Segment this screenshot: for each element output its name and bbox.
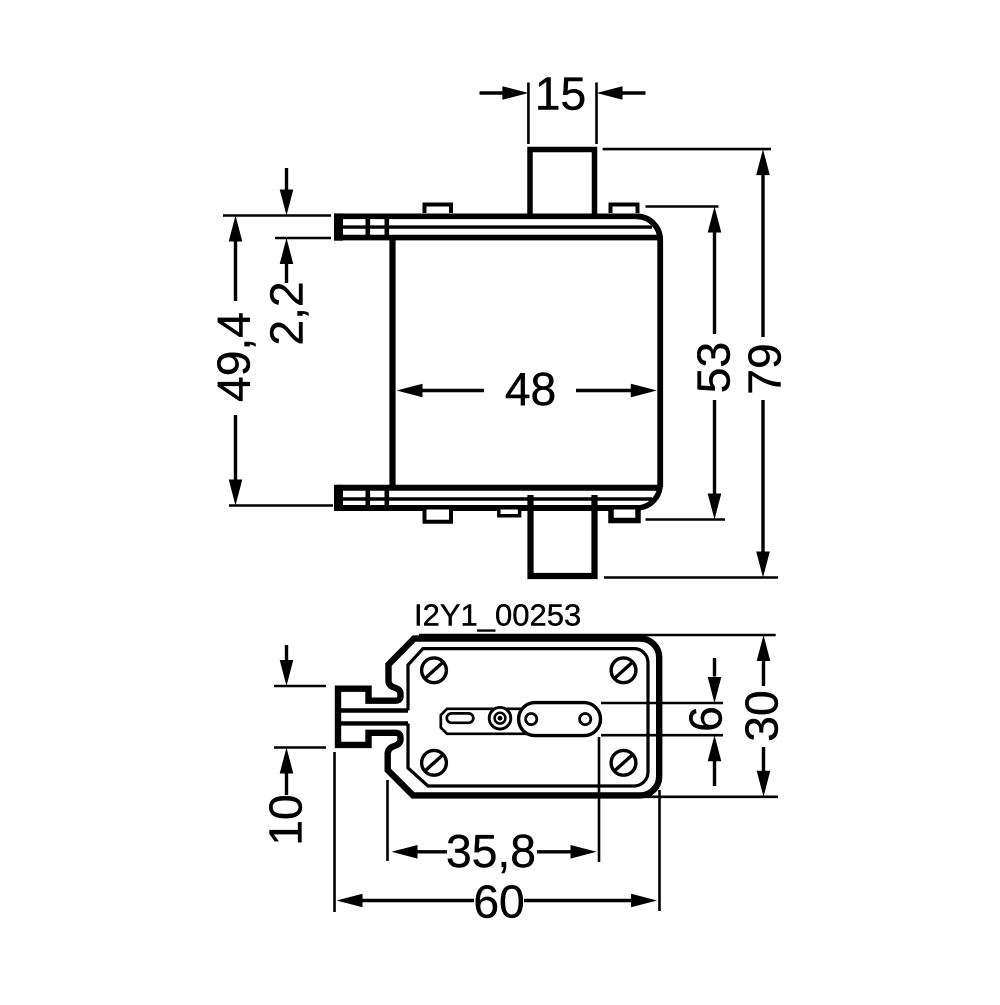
dim 53 ext top — [646, 205, 719, 208]
dim 53 ext bottom — [646, 518, 726, 521]
dim 60 ext right — [658, 790, 661, 911]
dim 15 ext left — [527, 83, 530, 145]
bottom blade upper view — [531, 495, 595, 576]
lower flange mid line — [343, 497, 652, 500]
svg-text:53: 53 — [688, 342, 740, 393]
screw top-left — [422, 658, 447, 683]
screw bottom-right — [611, 750, 636, 775]
link plate left hole — [526, 714, 537, 725]
dim 6 ext bottom — [601, 734, 723, 737]
housing outline bottom view — [338, 639, 659, 796]
blade channel top line — [341, 708, 408, 712]
svg-text:I2Y1_00253: I2Y1_00253 — [414, 598, 581, 633]
lower right tab — [611, 510, 638, 521]
lower middle tab — [499, 510, 520, 516]
dim 30 ext bottom — [644, 795, 778, 798]
dim 35,8 right arrow — [537, 850, 572, 853]
blade channel bottom line — [341, 721, 408, 725]
svg-text:49,4: 49,4 — [208, 312, 260, 402]
dim 49,4 line bottom — [234, 415, 237, 480]
svg-text:48: 48 — [505, 363, 556, 415]
dim 35,8 ext left — [386, 780, 389, 861]
dim 35,8 left arrow — [416, 850, 447, 853]
upper left tab — [425, 205, 452, 214]
lower flange left cap — [334, 485, 343, 511]
dim 60 left arrow — [362, 899, 475, 902]
dim 6 bottom arrow — [713, 761, 716, 787]
dim 15 left arrow — [480, 91, 505, 94]
upper flange bottom line — [337, 235, 658, 241]
dim 2,2 ext — [275, 237, 331, 240]
dim 49,4 ext bottom — [229, 504, 333, 507]
lower flange divider 1 — [366, 486, 371, 510]
lower flange top line — [337, 485, 658, 491]
dim 10 ext top — [274, 685, 326, 688]
dim 6 top arrow — [713, 658, 716, 677]
svg-text:15: 15 — [535, 68, 586, 120]
top blade upper view — [530, 150, 595, 219]
dim 79 ext top — [603, 148, 771, 151]
indicator rings — [489, 707, 511, 729]
svg-text:30: 30 — [736, 690, 788, 741]
dim 10 ext bottom — [274, 746, 326, 749]
dim 10 top arrow — [285, 645, 288, 661]
dim 53 line — [713, 232, 716, 335]
svg-text:79: 79 — [739, 343, 791, 394]
pill slot — [447, 713, 474, 722]
dim 15 ext right — [595, 83, 598, 145]
dim 60 ext left — [333, 752, 336, 912]
screw top-right — [611, 658, 636, 683]
upper right tab — [611, 205, 638, 214]
dim 48 right arrow — [576, 389, 632, 392]
svg-text:6: 6 — [680, 706, 732, 732]
upper flange divider 2 — [385, 216, 390, 238]
svg-text:2,2: 2,2 — [261, 281, 313, 345]
dim 49,4 ext top — [223, 214, 331, 217]
dim 2,2 top arrow — [285, 168, 288, 191]
link plate — [519, 703, 601, 736]
dim 60 right arrow — [524, 899, 632, 902]
dim 6 ext top — [601, 702, 723, 705]
carrier bar — [441, 709, 568, 734]
lower flange divider 2 — [385, 486, 390, 510]
dim 48 left arrow — [422, 389, 484, 392]
upper flange mid line — [343, 225, 652, 228]
dim 49,4 line top — [234, 240, 237, 301]
svg-text:10: 10 — [260, 794, 312, 845]
upper flange top line and body right edge — [337, 214, 640, 220]
dim 30 line bottom arrow — [762, 747, 765, 771]
link plate right hole — [580, 714, 591, 725]
svg-text:60: 60 — [473, 876, 524, 928]
dim 2,2 bottom arrow — [285, 263, 288, 283]
upper flange divider 1 — [366, 216, 371, 238]
lower flange bottom line — [337, 505, 640, 511]
lower left tab — [425, 510, 452, 522]
housing inner line — [408, 649, 648, 786]
dim 30 ext top — [419, 634, 776, 637]
dim 79 ext bottom — [604, 576, 778, 579]
dim 15 right arrow — [621, 91, 646, 94]
screw bottom-left — [422, 750, 447, 775]
dim 79 line — [761, 174, 764, 337]
body left edge — [389, 239, 395, 488]
dim 30 line top arrow — [762, 661, 765, 686]
dim 35,8 ext right — [598, 737, 601, 862]
svg-text:35,8: 35,8 — [446, 825, 536, 877]
dim 10 bottom arrow — [285, 773, 288, 796]
upper flange left cap — [334, 213, 343, 240]
